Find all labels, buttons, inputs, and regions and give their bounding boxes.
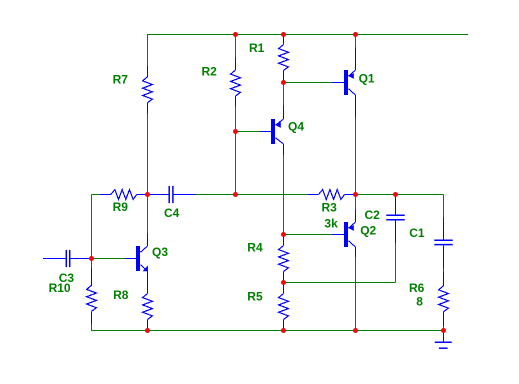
wire mid rail right section [356,194,444,196]
capacitor C4 [150,186,196,203]
junction node top rail / Q1 emitter [353,32,358,37]
svg-text:R8: R8 [113,288,129,302]
svg-text:Q3: Q3 [152,245,168,259]
resistor R5 [279,283,289,331]
capacitor C1 [434,217,452,268]
junction node Q4 collector / Q2 base / R4 [281,232,286,237]
wire R4-R5 node to C2 branch [284,282,396,284]
junction node mid rail / Q1 / Q2 / R3 [353,192,358,197]
wire node R2-Q4 down to mid-rail [235,132,237,195]
wire Q2 emitter stub [355,195,357,210]
junction node top rail / R2 [233,32,238,37]
wire Q3 base [92,258,126,260]
resistor R6 [439,272,449,327]
wire C2 bottom riser [395,243,397,283]
wire Q4 emitter riser [283,83,285,106]
junction node bottom rail / R5 [281,328,286,333]
wire R6 bottom stub [443,326,445,331]
svg-text:R3: R3 [322,201,338,215]
wire R2 bottom lead [235,106,237,132]
ground [435,333,452,348]
wire Q1 emitter to rail [355,35,357,48]
junction node bottom rail / R8 [145,328,150,333]
junction node mid rail / R9 / C4 / Q3 collector [145,192,150,197]
svg-text:Q2: Q2 [360,224,376,238]
wire R7 bottom to mid-rail [147,114,149,195]
svg-text:R4: R4 [247,240,263,254]
resistor R8 [143,283,153,331]
wire C1-R6 gap [443,269,445,272]
capacitor C3 [43,250,89,267]
transistor Q4 PNP [261,106,284,156]
wire left vertical R9 to C3 node [91,195,93,259]
wire C1 top corner [443,195,445,218]
svg-text:R2: R2 [202,65,218,79]
svg-text:R10: R10 [49,281,71,295]
transistor Q2 PNP [332,209,356,257]
wire mid rail C4 to R3 [196,194,308,196]
resistor R3 [308,190,356,200]
junction node R1 / Q1 base / Q4 emitter [281,80,286,85]
svg-text:R5: R5 [247,289,263,303]
wire R10 bottom corner [91,324,93,331]
resistor R9 [100,190,148,200]
transistor Q3 NPN [125,234,148,283]
resistor R7 [143,66,153,114]
svg-text:C4: C4 [164,206,180,220]
resistor R10 [87,268,97,324]
svg-text:R1: R1 [249,41,265,55]
resistor R1 [279,35,289,82]
wire R1 top stub [283,35,285,40]
svg-text:Q1: Q1 [359,72,375,86]
junction node R2 / Q4 base [233,129,238,134]
wire bottom rail [91,330,444,332]
junction node R4 / R5 / C2 return [281,280,286,285]
wire Q4 collector down to Q2 base node [283,155,285,235]
junction node mid rail / R2-Q4 branch [233,192,238,197]
wire R2 top lead [235,35,237,59]
wire Q3 collector riser [147,195,149,234]
wire top power rail [147,34,468,36]
junction node mid rail / C2 [393,192,398,197]
transistor Q1 PNP [332,47,356,117]
wire Q4 base [236,131,261,133]
junction node C3 / Q3 base / R10 [89,256,94,261]
svg-text:C1: C1 [409,226,425,240]
resistor R2 [231,58,241,107]
wire Q1 collector down to mid node [355,118,357,195]
junction node bottom rail / Q2 collector [353,328,358,333]
wire Q1 base [284,82,333,84]
junction node top rail / R1 [281,32,286,37]
wire R10 top stub [91,259,93,269]
wire R1 bottom stub [283,79,285,83]
wire R9 left corner [92,194,101,196]
svg-text:R7: R7 [113,73,129,87]
svg-text:3k: 3k [324,217,338,231]
capacitor C2 [386,197,404,243]
wire Q2 collector to bottom rail [355,257,357,331]
svg-text:R9: R9 [113,200,129,214]
svg-text:C2: C2 [365,208,381,222]
junction node bottom rail / R6 / ground [441,328,446,333]
svg-text:8: 8 [416,295,423,309]
svg-text:R6: R6 [409,281,425,295]
svg-text:Q4: Q4 [288,120,304,134]
resistor R4 [279,235,289,283]
wire R7 top lead [147,35,149,67]
wire Q2 base [284,234,332,236]
